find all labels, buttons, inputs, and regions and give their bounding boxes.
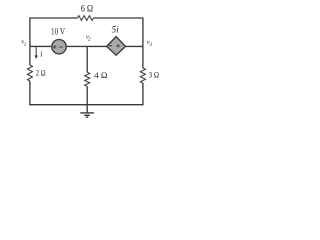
svg-text:5i: 5i (112, 24, 119, 34)
dependent source 5i diamond (107, 37, 126, 56)
svg-text:2: 2 (88, 37, 91, 43)
ground bar 3 (86, 116, 88, 118)
wire left vertical upper of 2-ohm (29, 46, 31, 65)
wire middle branch lower (86, 86, 88, 104)
wire middle left segment (30, 45, 52, 47)
ground bar 2 (84, 114, 90, 116)
voltage source V1 10V (52, 40, 66, 54)
svg-text:10 V: 10 V (51, 28, 65, 38)
wire top-left vertical (29, 18, 31, 46)
ground bar 1 (80, 112, 94, 114)
resistor R 2ohm (27, 65, 32, 81)
resistor R 6ohm (78, 16, 94, 21)
ground stub (86, 105, 88, 113)
svg-text:6 Ω: 6 Ω (81, 3, 93, 14)
wire right vertical lower (142, 83, 144, 105)
resistor R 3ohm (140, 68, 145, 83)
svg-text:4 Ω: 4 Ω (94, 70, 108, 80)
plus sign of 10V source (53, 45, 56, 48)
svg-text:1: 1 (24, 42, 27, 48)
plus sign of 5i source (116, 44, 119, 47)
wire right vertical upper (142, 18, 144, 46)
wire right vertical mid (142, 46, 144, 68)
wire top horizontal right of 6-ohm (93, 17, 143, 19)
current arrow i (35, 47, 37, 56)
minus sign of 5i source (109, 45, 112, 47)
wire middle right segment (126, 45, 143, 47)
svg-text:3 Ω: 3 Ω (149, 69, 160, 79)
wire left vertical lower (29, 81, 31, 105)
wire top horizontal left of 6-ohm (29, 17, 77, 19)
svg-text:3: 3 (150, 42, 153, 48)
svg-text:i: i (40, 50, 42, 59)
wire bottom horizontal (29, 104, 143, 106)
minus sign of 10V source (59, 46, 63, 48)
wire middle branch upper (86, 46, 88, 72)
wire middle between source and diamond (66, 45, 107, 47)
resistor R 4ohm (85, 72, 90, 86)
svg-text:2 Ω: 2 Ω (36, 67, 46, 77)
